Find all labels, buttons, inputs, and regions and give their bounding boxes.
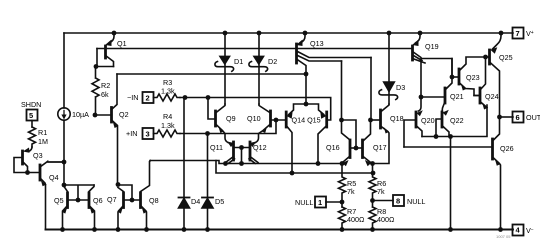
svg-text:D2: D2 xyxy=(268,57,277,66)
junction Q2 emitter node xyxy=(116,182,121,187)
transistor Q22 xyxy=(441,112,444,127)
wire Q10 Q14 base tie xyxy=(271,119,287,121)
arrow Q16 emitter xyxy=(342,160,348,166)
transistor Q23 xyxy=(458,69,461,84)
junction R5 R7 null xyxy=(340,200,345,205)
arrow Q10 emitter xyxy=(262,127,267,133)
svg-text:3: 3 xyxy=(146,130,150,139)
svg-text:SHDN: SHDN xyxy=(21,100,41,109)
transistor Q12 xyxy=(249,142,252,160)
svg-text:R2: R2 xyxy=(101,81,110,90)
arrow Q18 emitter xyxy=(384,127,389,133)
transistor Q16 xyxy=(349,140,352,158)
svg-text:Q18: Q18 xyxy=(390,114,404,123)
pin box 6 OUT xyxy=(513,112,524,123)
svg-text:Q14 Q15: Q14 Q15 xyxy=(292,116,321,125)
svg-text:1007 05: 1007 05 xyxy=(496,234,511,239)
transistor Q8 xyxy=(139,193,142,208)
pin box 7 V+ xyxy=(513,28,524,39)
junction Q23 Q24 collectors xyxy=(483,55,488,60)
current source I1 10uA xyxy=(63,33,65,108)
junction Q16 base branch xyxy=(339,118,344,123)
svg-text:Q11: Q11 xyxy=(210,143,223,152)
arrow Q15 emitter xyxy=(320,112,326,119)
junction -IN Q9 base xyxy=(206,95,211,100)
svg-text:1: 1 xyxy=(318,198,322,207)
junction 10uA Q4 xyxy=(62,160,67,165)
arrow Q14 emitter xyxy=(287,112,293,119)
wire bottom rail V- xyxy=(46,229,514,231)
arrow Q13 emitter xyxy=(296,40,303,47)
svg-text:+IN: +IN xyxy=(126,129,137,138)
arrow Q4 emitter xyxy=(41,180,46,186)
wire +IN rail xyxy=(180,120,276,134)
resistor R5 xyxy=(339,164,346,208)
pin box 1 NULL xyxy=(315,197,326,208)
junction Q5 Q6 base xyxy=(76,198,81,203)
svg-text:Q20: Q20 xyxy=(421,116,435,125)
svg-text:D1: D1 xyxy=(234,57,243,66)
svg-text:Q2: Q2 xyxy=(119,110,129,119)
svg-text:10µA: 10µA xyxy=(72,110,89,119)
pin box 2 -IN xyxy=(143,92,154,103)
resistor R2 xyxy=(92,67,99,116)
svg-text:2: 2 xyxy=(146,94,150,103)
resistor R3 xyxy=(154,94,181,101)
arrow Q20 emitter xyxy=(417,110,423,116)
arrow Q1 emitter xyxy=(105,40,112,47)
junction D1 top xyxy=(223,31,228,36)
arrow I1 current source xyxy=(61,115,66,120)
svg-text:D4: D4 xyxy=(191,197,200,206)
junction -IN D4 xyxy=(183,95,188,100)
svg-text:400Ω: 400Ω xyxy=(377,215,395,224)
transistor Q9 xyxy=(214,111,217,126)
svg-text:7k: 7k xyxy=(377,187,385,196)
transistor Q17 xyxy=(361,140,364,158)
pin box 8 NULL xyxy=(393,195,404,206)
transistor Q14 xyxy=(305,74,307,104)
junction D2 top xyxy=(257,31,262,36)
junction Q17 collector Q18 base xyxy=(368,118,373,123)
junction Q2 base xyxy=(93,113,98,118)
arrow Q21 emitter into Q22 xyxy=(443,110,449,116)
resistor R1 xyxy=(29,127,36,147)
wire base branch to Q16 Q17 xyxy=(342,120,357,148)
svg-text:6k: 6k xyxy=(101,90,109,99)
svg-text:Q12: Q12 xyxy=(253,143,267,152)
arrow Q3 emitter xyxy=(23,148,30,153)
svg-text:−IN: −IN xyxy=(127,93,138,102)
transistor Q21 xyxy=(444,88,447,103)
transistor Q18 xyxy=(379,110,382,128)
svg-text:Q4: Q4 xyxy=(49,173,59,182)
arrow Q25 emitter xyxy=(490,47,497,54)
junction bias bus V- drop xyxy=(448,134,453,139)
arrow Q2 emitter xyxy=(113,122,118,128)
arrow Q8 emitter xyxy=(142,207,147,213)
wire Q5 Q6 base tie xyxy=(64,185,94,200)
svg-text:400Ω: 400Ω xyxy=(347,215,365,224)
transistor Q24 xyxy=(479,88,482,103)
junction Q19 top xyxy=(418,31,423,36)
junction Q17 Q18 emitter R6 xyxy=(370,161,375,166)
pin box 3 +IN xyxy=(143,128,154,139)
junction bus Q11 xyxy=(223,161,228,166)
svg-text:Q13: Q13 xyxy=(310,39,324,48)
svg-text:Q19: Q19 xyxy=(425,42,439,51)
junction R6 R8 null xyxy=(370,198,375,203)
transistor Q4 xyxy=(39,165,42,180)
wire collector bus lower xyxy=(216,161,373,174)
resistor R7 xyxy=(339,207,346,230)
svg-text:Q3: Q3 xyxy=(33,151,43,160)
wire Q13c2 to Q16 xyxy=(342,61,351,140)
transistor Q26 xyxy=(491,139,494,159)
transistor Q6 xyxy=(88,193,91,208)
wire Q7 Q8 base tie xyxy=(118,185,141,200)
junction Q21 coll Q23 base xyxy=(450,75,455,80)
junction 10uA mirror xyxy=(62,183,67,188)
arrow Q12 emitter xyxy=(250,142,257,148)
wire pin5 to R1 xyxy=(31,121,33,128)
svg-text:Q16: Q16 xyxy=(326,143,340,152)
wire y74 rail xyxy=(117,73,306,75)
arrow Q19 emitter xyxy=(412,40,419,47)
svg-text:Q23: Q23 xyxy=(466,73,480,82)
junction Q16 Q17 base xyxy=(354,146,359,151)
svg-text:Q24: Q24 xyxy=(485,92,499,101)
svg-text:Q1: Q1 xyxy=(117,39,127,48)
svg-text:Q26: Q26 xyxy=(500,144,514,153)
svg-text:Q7: Q7 xyxy=(107,195,117,204)
transistor Q1 xyxy=(110,33,115,43)
svg-text:Q17: Q17 xyxy=(373,143,387,152)
arrow Q7 emitter xyxy=(118,207,123,213)
diode D2 xyxy=(258,33,260,56)
wire collector bus upper xyxy=(150,161,342,164)
svg-text:Q5: Q5 xyxy=(54,196,64,205)
junction top rail Q1 xyxy=(112,31,117,36)
junction OUT xyxy=(497,115,502,120)
arrow Q17 emitter xyxy=(365,160,371,166)
svg-text:D5: D5 xyxy=(215,197,224,206)
svg-text:7k: 7k xyxy=(347,187,355,196)
pin box 5 SHDN xyxy=(27,110,38,121)
junction Q7 Q8 base xyxy=(130,198,135,203)
svg-text:D3: D3 xyxy=(396,83,405,92)
node 10uA to Q4 collector xyxy=(63,120,65,185)
transistor Q13 xyxy=(301,33,306,43)
junction y74 drop xyxy=(304,72,309,77)
svg-text:Q8: Q8 xyxy=(149,196,159,205)
pin box 4 V- xyxy=(513,225,524,236)
svg-text:8: 8 xyxy=(396,197,400,206)
resistor R8 xyxy=(369,207,376,230)
wire base rail left corner down xyxy=(96,49,114,67)
junction Q3 xyxy=(25,170,30,175)
junction bus center xyxy=(239,161,244,166)
junction +IN D5 xyxy=(205,131,210,136)
junction lower bus Q14 xyxy=(290,171,295,176)
junction +IN base node xyxy=(274,118,279,123)
transistor Q5 xyxy=(66,193,69,208)
transistor Q15 xyxy=(306,104,324,115)
junction D3 top xyxy=(387,31,392,36)
arrow Q11 emitter xyxy=(227,142,234,148)
wire output bias bus xyxy=(422,105,487,137)
wire top rail V+ xyxy=(64,32,513,34)
arrow Q26 emitter xyxy=(495,160,500,166)
wire bias base rail xyxy=(97,48,413,50)
wire Q11 Q12 base tie xyxy=(234,148,251,164)
transistor Q20 xyxy=(415,112,418,127)
junction Q1 base-collector node xyxy=(94,64,99,69)
arrow Q9 emitter xyxy=(219,127,224,133)
svg-text:OUT: OUT xyxy=(526,113,540,122)
arrow Q24 emitter xyxy=(482,103,487,109)
junction Q13 top xyxy=(303,31,308,36)
svg-text:Q6: Q6 xyxy=(93,196,103,205)
svg-text:1.3k: 1.3k xyxy=(161,121,175,130)
svg-text:1.3k: 1.3k xyxy=(161,87,175,96)
diode D1 xyxy=(224,33,226,56)
resistor R4 xyxy=(154,130,181,137)
junction Q25 top xyxy=(499,31,504,36)
svg-text:R1: R1 xyxy=(38,128,47,137)
junction Q19 Q21 base xyxy=(419,95,424,100)
wire V- drop xyxy=(450,137,452,230)
arrow Q6 emitter xyxy=(90,207,95,213)
svg-text:Q21: Q21 xyxy=(450,92,464,101)
junction Q14 Q15 emitters xyxy=(304,102,309,107)
svg-text:Q10: Q10 xyxy=(247,114,261,123)
svg-text:1M: 1M xyxy=(38,137,48,146)
junction Q15 collector bus xyxy=(316,161,321,166)
svg-text:NULL: NULL xyxy=(407,197,425,206)
transistor Q7 xyxy=(122,193,125,208)
transistor Q10 xyxy=(269,111,272,126)
svg-text:Q22: Q22 xyxy=(450,116,464,125)
wire -IN rail xyxy=(180,98,331,121)
svg-text:6: 6 xyxy=(516,113,520,122)
transistor Q19 xyxy=(416,33,421,43)
diode D3 xyxy=(388,33,390,82)
arrow Q22 collector none / Q23 emitter xyxy=(461,84,466,90)
diode D4 xyxy=(183,98,185,198)
junction Q11 Q12 base xyxy=(239,145,244,150)
transistor Q25 xyxy=(493,33,502,49)
transistor Q11 xyxy=(232,142,235,160)
wire left V- riser xyxy=(45,185,47,230)
arrow Q5 emitter xyxy=(62,207,67,213)
diode D5 xyxy=(207,134,209,198)
wire Q13c1 down xyxy=(370,58,372,121)
junction Q16 emitter R5 xyxy=(340,161,345,166)
junction lower bus R6 xyxy=(371,171,376,176)
svg-text:Q25: Q25 xyxy=(499,53,513,62)
junction bias bus Q22 xyxy=(434,134,439,139)
transistor Q2 xyxy=(110,108,113,123)
svg-text:Q9: Q9 xyxy=(226,114,236,123)
svg-text:NULL: NULL xyxy=(295,198,313,207)
svg-text:7: 7 xyxy=(516,29,520,38)
svg-text:R4: R4 xyxy=(163,112,172,121)
svg-text:5: 5 xyxy=(29,111,33,120)
transistor Q3 xyxy=(29,147,33,152)
resistor R6 xyxy=(369,164,376,208)
junction V- rail dots xyxy=(60,227,65,232)
